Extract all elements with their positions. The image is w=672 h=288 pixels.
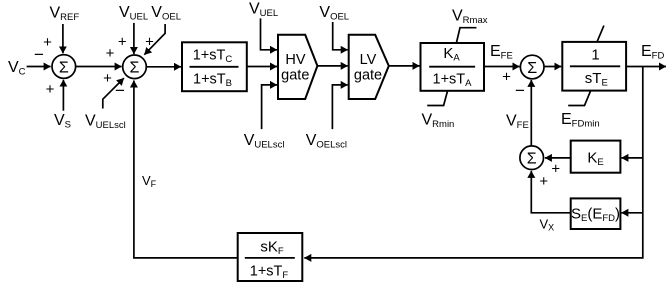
svg-text:VX: VX: [540, 217, 555, 233]
svg-text:+: +: [118, 34, 127, 51]
svg-text:EFDmin: EFDmin: [561, 111, 600, 130]
svg-text:VUELscl: VUELscl: [244, 132, 285, 151]
svg-text:EFE: EFE: [490, 43, 513, 62]
svg-text:+: +: [46, 81, 55, 98]
svg-text:VUEL: VUEL: [249, 1, 278, 20]
svg-text:VOEL: VOEL: [319, 4, 349, 23]
svg-text:+: +: [145, 34, 154, 51]
svg-text:gate: gate: [281, 67, 309, 83]
svg-text:−: −: [515, 81, 525, 100]
svg-text:+: +: [551, 161, 560, 178]
svg-text:+: +: [539, 173, 548, 190]
svg-text:+: +: [43, 34, 52, 51]
svg-text:VOEL: VOEL: [151, 4, 181, 23]
svg-text:VF: VF: [142, 173, 157, 189]
svg-text:HV: HV: [285, 52, 305, 68]
svg-text:LV: LV: [360, 52, 377, 68]
svg-text:1: 1: [591, 46, 599, 63]
svg-text:VRmin: VRmin: [422, 112, 455, 131]
svg-text:VUELscl: VUELscl: [85, 113, 126, 132]
svg-text:Σ: Σ: [527, 151, 537, 168]
svg-text:VC: VC: [8, 59, 26, 78]
svg-text:EFD: EFD: [641, 43, 664, 62]
svg-text:Σ: Σ: [130, 60, 140, 77]
svg-text:VREF: VREF: [50, 5, 80, 24]
svg-text:−: −: [115, 81, 125, 100]
svg-text:gate: gate: [354, 67, 382, 83]
svg-text:VOELscl: VOELscl: [306, 132, 347, 151]
svg-text:+: +: [502, 69, 511, 86]
svg-text:VUEL: VUEL: [119, 4, 148, 23]
svg-text:Σ: Σ: [59, 59, 69, 76]
svg-text:+: +: [106, 45, 115, 62]
svg-text:VS: VS: [54, 112, 71, 131]
svg-text:+: +: [103, 70, 112, 87]
svg-text:VFE: VFE: [506, 113, 529, 132]
svg-text:Σ: Σ: [527, 60, 537, 77]
svg-text:VRmax: VRmax: [452, 8, 488, 27]
